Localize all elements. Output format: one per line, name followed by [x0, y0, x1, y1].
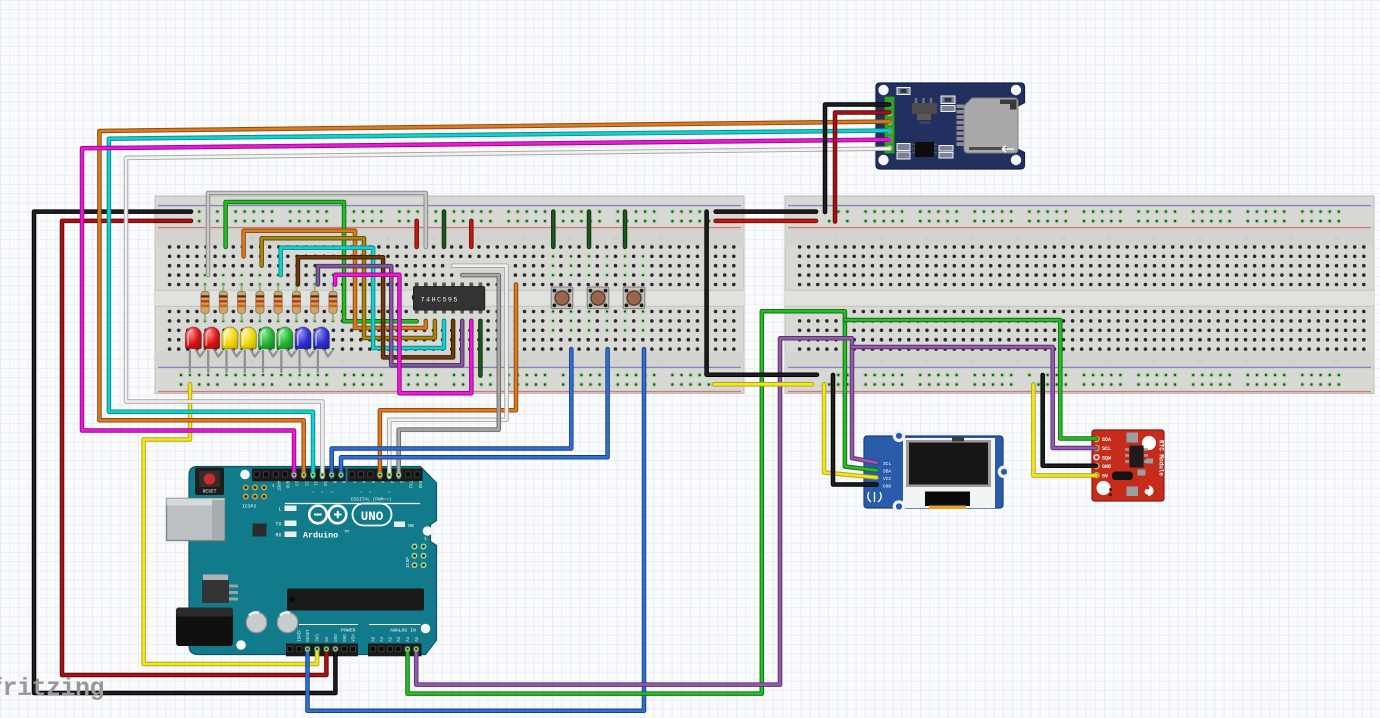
wire red power to Arduino 5V	[62, 221, 326, 675]
svg-text:45: 45	[567, 238, 573, 242]
svg-text:10: 10	[879, 361, 885, 365]
wire yellow rail to Arduino 3V3	[144, 384, 318, 664]
capacitors	[246, 612, 298, 633]
svg-text:RX: RX	[275, 533, 281, 539]
wire purple A5 SCL bus	[416, 338, 876, 684]
resistor R5	[274, 285, 282, 321]
svg-text:~: ~	[311, 491, 314, 496]
svg-text:ANALOG IN: ANALOG IN	[390, 628, 416, 634]
svg-text:35: 35	[1106, 361, 1112, 365]
svg-text:RTC Module: RTC Module	[1158, 440, 1165, 476]
svg-text:20: 20	[970, 238, 976, 242]
Arduino logo	[309, 504, 391, 526]
LED7 blue	[295, 327, 317, 377]
voltage regulator	[203, 575, 228, 582]
breadboard right main holes	[798, 245, 1366, 351]
svg-text:VCC: VCC	[883, 476, 892, 482]
svg-text:11: 11	[313, 481, 317, 487]
svg-text:A4: A4	[407, 636, 411, 642]
svg-text:SQW: SQW	[1102, 455, 1111, 461]
wire dark green jumper e	[587, 212, 592, 247]
svg-text:SCL: SCL	[1102, 446, 1111, 452]
wire yellow rail to OLED VCC	[824, 384, 877, 477]
wire green A4 SDA bus	[408, 311, 877, 693]
resistor R1	[201, 285, 209, 321]
svg-text:~: ~	[388, 491, 391, 496]
svg-text:UNO: UNO	[361, 510, 384, 524]
svg-text:GND: GND	[285, 481, 289, 489]
wire dark green 595 gnd	[478, 321, 483, 376]
wire grey wire to D2	[399, 275, 499, 477]
svg-text:25: 25	[1015, 361, 1021, 365]
RTC module	[1092, 430, 1165, 501]
svg-text:A2: A2	[390, 636, 394, 642]
svg-text:RESET: RESET	[307, 629, 311, 642]
svg-text:45: 45	[1197, 361, 1203, 365]
wire yellow rail bridge	[714, 382, 812, 387]
svg-text:10: 10	[322, 481, 326, 487]
wire red top rail bridge	[716, 219, 816, 224]
svg-text:A5: A5	[416, 636, 420, 642]
svg-text:10: 10	[249, 238, 255, 242]
svg-text:TX: TX	[275, 522, 281, 528]
svg-text:~: ~	[321, 491, 324, 496]
OLED display module	[864, 430, 1010, 513]
svg-text:20: 20	[340, 361, 346, 365]
crystal	[253, 524, 267, 537]
svg-text:5V: 5V	[326, 636, 330, 642]
svg-text:SCL: SCL	[883, 461, 892, 467]
wire dark green jumper d	[551, 212, 556, 247]
svg-text:15: 15	[924, 361, 930, 365]
svg-text:~: ~	[359, 491, 362, 496]
svg-text:A1: A1	[381, 636, 385, 642]
svg-text:10: 10	[249, 361, 255, 365]
svg-text:A0: A0	[372, 636, 376, 642]
breadboard left main holes	[168, 245, 736, 351]
svg-text:DIGITAL (PWM~=): DIGITAL (PWM~=)	[351, 497, 392, 503]
resistor R7	[311, 285, 319, 321]
svg-text:45: 45	[1197, 238, 1203, 242]
LED4 yellow	[240, 327, 262, 377]
LED5 green	[258, 327, 280, 377]
wire dark green jumper b	[442, 212, 447, 247]
svg-text:25: 25	[1015, 238, 1021, 242]
Arduino UNO board	[167, 467, 437, 657]
svg-text:55: 55	[1288, 361, 1294, 365]
svg-text:50: 50	[613, 238, 619, 242]
LED3 yellow	[222, 327, 244, 377]
svg-text:50: 50	[1243, 361, 1249, 365]
wire dark red SD VCC to rail	[835, 113, 890, 222]
svg-text:40: 40	[1152, 238, 1158, 242]
resistor R3	[238, 285, 246, 321]
svg-text:1: 1	[272, 484, 275, 489]
LED6 green	[277, 327, 299, 377]
wire orange jumper Q1	[244, 231, 426, 328]
svg-text:GND: GND	[1102, 464, 1111, 470]
svg-text:12: 12	[303, 481, 307, 487]
svg-text:POWER: POWER	[341, 628, 356, 634]
svg-text:35: 35	[1106, 238, 1112, 242]
svg-text:60: 60	[1334, 361, 1340, 365]
LED indicators L TX RX	[275, 506, 296, 539]
ICSP2 header	[242, 484, 275, 510]
svg-text:AREF: AREF	[275, 481, 279, 492]
ATmega chip	[287, 589, 424, 611]
wire black rail to OLED GND	[833, 375, 877, 485]
svg-text:RX0: RX0	[417, 481, 421, 489]
ICSP header	[405, 537, 427, 568]
svg-text:20: 20	[970, 361, 976, 365]
wire grey jumper	[208, 193, 426, 275]
digital pin headers	[252, 469, 423, 504]
power / analog headers	[286, 625, 422, 657]
wire black top rail bridge	[716, 209, 816, 214]
wire cyan jumper Q3	[281, 248, 444, 348]
pushbutton S3	[623, 287, 645, 309]
wire purple SCL to RTC	[852, 347, 1096, 448]
wire olive jumper Q2	[262, 238, 435, 338]
svg-text:40: 40	[522, 238, 528, 242]
wire dark green jumper f	[623, 212, 628, 247]
resistor R4	[256, 285, 264, 321]
svg-text:50: 50	[613, 361, 619, 365]
svg-text:~: ~	[369, 491, 372, 496]
wire white wire to D3	[389, 266, 506, 477]
svg-text:35: 35	[476, 238, 482, 242]
wire black rail to RTC GND	[1043, 375, 1096, 466]
svg-text:IOREF: IOREF	[299, 629, 303, 642]
svg-text:RESET: RESET	[203, 489, 217, 495]
svg-text:5V: 5V	[1102, 473, 1108, 479]
mounting holes	[236, 470, 432, 650]
svg-text:50: 50	[1243, 238, 1249, 242]
LED2 red	[204, 327, 226, 377]
svg-text:SDA: SDA	[1102, 437, 1111, 443]
svg-text:TM: TM	[344, 531, 349, 535]
svg-text:GND: GND	[344, 634, 348, 642]
breadboard left power rails	[179, 209, 712, 387]
resistor R6	[292, 285, 300, 321]
svg-text:40: 40	[1152, 361, 1158, 365]
wire magenta SD MOSI to D13	[82, 140, 890, 477]
svg-text:60: 60	[1334, 238, 1340, 242]
svg-text:ICSP: ICSP	[405, 557, 411, 568]
svg-text:40: 40	[522, 361, 528, 365]
wire orange wire to D4	[380, 285, 516, 478]
wire green jumper to Q0	[226, 202, 417, 321]
svg-text:ON: ON	[408, 523, 414, 529]
power jack	[176, 608, 233, 647]
breadboard right power rails	[809, 209, 1342, 387]
svg-text:~: ~	[330, 491, 333, 496]
wire blue button1 to D9	[332, 349, 572, 477]
resistor R2	[219, 285, 227, 321]
pushbutton S1	[551, 287, 573, 309]
wire yellow rail to RTC 5V	[1033, 385, 1096, 476]
USB connector	[167, 499, 225, 541]
wire red jumper c	[469, 221, 474, 247]
svg-text:55: 55	[658, 361, 664, 365]
svg-text:74HC595: 74HC595	[421, 296, 458, 304]
pin connection glows	[291, 472, 418, 651]
svg-text:TX1: TX1	[408, 481, 412, 489]
svg-text:55: 55	[1288, 238, 1294, 242]
svg-text:1: 1	[424, 537, 427, 542]
connected hole highlights	[188, 209, 1046, 387]
svg-text:SBA: SBA	[883, 469, 892, 475]
IC 74HC595	[412, 282, 485, 313]
svg-text:13: 13	[294, 481, 298, 487]
svg-text:30: 30	[431, 238, 437, 242]
wire cyan SD SCK to D11	[109, 131, 890, 478]
wire violet jumper Q5	[318, 266, 462, 365]
svg-text:GND: GND	[335, 634, 339, 642]
wire blue button2 to D8	[341, 349, 608, 477]
svg-text:VIN: VIN	[353, 634, 357, 642]
LED1 red	[185, 327, 207, 377]
pushbutton S2	[587, 287, 609, 309]
wire black SD GND to rail	[825, 105, 890, 213]
reset button	[195, 468, 224, 496]
wire brown jumper Q4	[298, 257, 453, 357]
LED8 blue	[313, 327, 335, 377]
svg-text:10: 10	[879, 238, 885, 242]
svg-text:55: 55	[658, 238, 664, 242]
svg-text:GND: GND	[883, 483, 892, 489]
wire black power to Arduino GND	[34, 212, 335, 693]
wire green SDA to RTC	[845, 320, 1096, 439]
wire red jumper a	[414, 221, 419, 247]
svg-text:L: L	[278, 507, 281, 513]
svg-text:30: 30	[1061, 238, 1067, 242]
resistor R8	[329, 285, 337, 321]
svg-text:3V3: 3V3	[317, 634, 321, 642]
svg-text:ICSP2: ICSP2	[242, 504, 257, 510]
svg-text:Arduino: Arduino	[303, 531, 338, 541]
svg-text:15: 15	[924, 238, 930, 242]
wire blue button3 to RESET	[308, 349, 645, 711]
wire white SD CS to D10	[126, 149, 890, 477]
svg-text:25: 25	[385, 238, 391, 242]
svg-text:A3: A3	[398, 636, 402, 642]
wire orange SD MISO to D12	[99, 122, 889, 478]
wire black rail bridge vertical	[707, 212, 817, 375]
svg-text:fritzing: fritzing	[0, 674, 104, 703]
SD card module	[876, 83, 1025, 169]
ON led	[394, 522, 405, 528]
wire magenta jumper Q6	[335, 275, 471, 393]
